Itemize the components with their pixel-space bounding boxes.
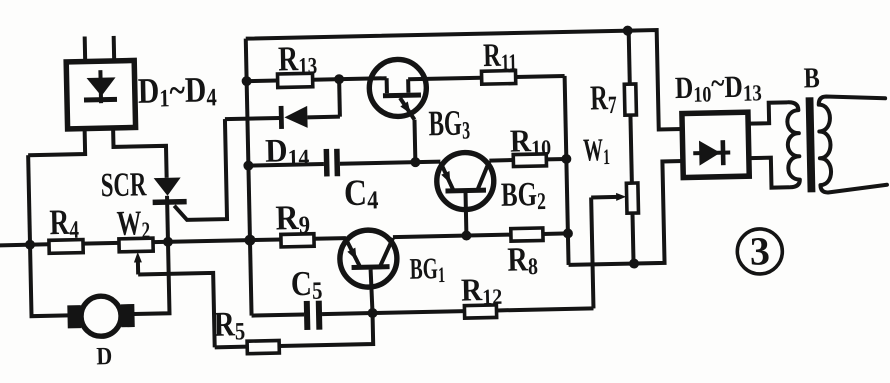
wire W1 wiper down to R12 row <box>591 197 593 308</box>
wire left column bus to motor row <box>30 244 68 316</box>
label R10 <box>510 123 552 161</box>
label BG3 <box>428 102 470 145</box>
transistor BG3 <box>369 58 484 163</box>
node R10 right <box>561 154 571 164</box>
label R5 <box>213 304 245 346</box>
svg-text:SCR: SCR <box>100 166 147 205</box>
resistor R11 <box>481 69 564 84</box>
svg-text:R13: R13 <box>278 39 318 80</box>
svg-text:R4: R4 <box>49 202 79 244</box>
label W2 <box>116 203 150 245</box>
potentiometer W2 <box>119 235 282 274</box>
wire AC input stub left <box>83 37 88 63</box>
node R8 right <box>563 228 573 238</box>
wire D14 anode up to R13 row <box>337 79 342 116</box>
node W1 bottom <box>629 258 639 268</box>
wire W2 wiper to R5 feed <box>138 273 215 349</box>
transistor BG2 <box>436 152 495 236</box>
label R9 <box>275 199 310 240</box>
wire left main vertical <box>246 39 252 316</box>
node BG2 base / R8 row <box>461 230 471 240</box>
label R13 <box>278 39 318 80</box>
node C4 row left <box>243 161 253 171</box>
resistor R10 <box>489 153 566 167</box>
svg-text:R12: R12 <box>461 272 503 310</box>
motor D <box>67 296 135 337</box>
label R4 <box>49 202 79 244</box>
node bus SCR junction <box>163 237 173 247</box>
resistor R7 <box>623 30 638 183</box>
svg-text:R9: R9 <box>275 199 310 240</box>
label BG1 <box>409 252 445 289</box>
wire BG1 base down to R5 row <box>279 313 374 346</box>
wire left column down to bus <box>28 155 30 244</box>
label R7 <box>590 78 617 120</box>
wire bridge bottom-right to SCR anode <box>113 127 167 179</box>
svg-text:R7: R7 <box>590 78 617 120</box>
node top rail R7 <box>623 26 633 36</box>
svg-text:C4: C4 <box>344 172 379 215</box>
svg-text:BG1: BG1 <box>409 252 445 289</box>
wire AC input stub right <box>112 36 117 62</box>
label C5 <box>290 263 322 305</box>
resistor R13 <box>247 72 387 88</box>
node R13 right / D14 <box>334 74 344 84</box>
label B <box>803 61 820 94</box>
wire top rail <box>246 30 682 139</box>
svg-text:D1~D4: D1~D4 <box>137 71 217 113</box>
svg-text:W2: W2 <box>116 203 150 245</box>
wire bridge bottom-left to left column <box>28 129 86 156</box>
svg-text:R5: R5 <box>213 304 245 346</box>
wire bridge2 right-bottom to primary bottom <box>749 157 789 188</box>
resistor R4 <box>0 239 119 255</box>
node BG3 emitter / C4 row <box>410 157 420 167</box>
label R12 <box>461 272 503 310</box>
svg-text:R11: R11 <box>483 37 518 76</box>
resistor R8 <box>511 227 568 241</box>
transformer B primary winding <box>787 102 800 187</box>
label R8 <box>507 240 538 281</box>
label D10~D13 <box>674 66 762 108</box>
potentiometer W1 <box>591 183 640 264</box>
label C4 <box>344 172 379 215</box>
capacitor C5 <box>251 300 373 332</box>
label D1~D4 <box>137 71 217 113</box>
wire SCR cathode down to motor <box>133 242 170 314</box>
rectifier bridge D10~D13 <box>682 112 749 177</box>
svg-text:D10~D13: D10~D13 <box>674 66 762 108</box>
label SCR <box>100 166 147 205</box>
wire right ladder vertical <box>565 76 569 265</box>
svg-text:3: 3 <box>749 228 770 273</box>
label BG2 <box>501 175 546 215</box>
node bus left <box>25 240 35 250</box>
resistor R12 <box>372 303 593 320</box>
wire bottom right row <box>566 161 685 265</box>
resistor R5 <box>215 341 280 355</box>
resistor R9 <box>281 233 346 247</box>
wire SCR gate <box>172 119 227 220</box>
svg-text:BG3: BG3 <box>428 102 470 145</box>
thyristor SCR <box>152 177 187 242</box>
label D14 <box>265 131 310 171</box>
transformer B core <box>806 97 816 192</box>
label D (motor) <box>96 343 112 371</box>
label W1 <box>583 131 610 169</box>
svg-text:B: B <box>803 61 820 94</box>
svg-text:R10: R10 <box>510 123 552 161</box>
node bus main-vertical junction <box>244 234 255 245</box>
svg-text:W1: W1 <box>583 131 610 169</box>
figure number 3 <box>737 228 783 274</box>
svg-text:BG2: BG2 <box>501 175 546 215</box>
label R11 <box>483 37 518 76</box>
svg-text:R8: R8 <box>507 240 538 281</box>
rectifier bridge D1~D4 <box>66 60 135 128</box>
wire bridge2 right-top to primary top <box>748 102 788 123</box>
transistor BG1 <box>339 230 398 314</box>
svg-text:C5: C5 <box>290 263 322 305</box>
svg-text:D: D <box>96 343 112 371</box>
transformer B secondary winding <box>819 95 887 192</box>
capacitor C4 <box>248 147 441 179</box>
wire BG1 collector to R8 row <box>393 235 511 237</box>
diode D14 <box>225 105 340 130</box>
node BG1 base / C5 row <box>367 308 377 318</box>
node R13 left <box>242 76 252 86</box>
